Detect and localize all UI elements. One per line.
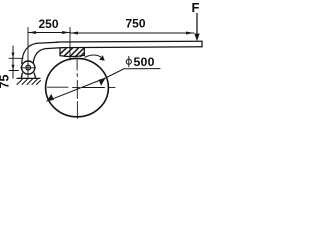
svg-text:250: 250 <box>38 17 58 31</box>
arrow: dim75 upper (down, tip y=58.3) <box>12 53 15 59</box>
brake shoe left edge <box>59 48 61 56</box>
arrow: phi500 upper-right tip on rim <box>99 78 106 86</box>
drum horizontal centerline <box>48 86 116 88</box>
svg-text:750: 750 <box>125 17 145 31</box>
pin vertical centerline / extension line for 250 <box>27 28 29 79</box>
lever bar bottom edge <box>62 46 202 49</box>
svg-text:F: F <box>192 0 200 15</box>
phi500 leader: diagonal through circle + horizontal <box>47 69 160 102</box>
dim 750 line <box>70 32 194 34</box>
dim 75 tick top <box>9 57 23 59</box>
arrow: dim250 right (tip at x=70) <box>62 31 70 34</box>
arrow: dim750 left (tip at x=70) <box>70 32 78 35</box>
pin support block <box>21 73 36 78</box>
arrow: force F (down, tip on bar) <box>194 34 199 42</box>
lever bar top edge <box>57 40 202 43</box>
dim 75 line <box>12 46 14 78</box>
arrow: phi500 lower-left tip on rim <box>47 94 54 101</box>
brake shoe right edge <box>83 48 85 56</box>
ground hatching <box>17 79 41 85</box>
ground line <box>17 77 40 79</box>
arrow: dim75 lower (down, tip y=70.5) <box>12 65 15 71</box>
dim 75 tick bottom <box>9 70 19 72</box>
label phi500 : phi glyph drawn <box>126 56 131 67</box>
dim 250 line <box>28 32 70 34</box>
pin outer circle <box>22 61 35 74</box>
lever bar right end cap <box>201 41 203 47</box>
svg-text:75: 75 <box>0 75 12 89</box>
drum vertical centerline <box>76 59 78 119</box>
brake shoe hatching <box>60 48 84 57</box>
rotation direction arrow shaft <box>85 55 101 57</box>
brake shoe bottom edge <box>60 55 84 56</box>
drum circle phi500 <box>46 58 109 116</box>
lever curved arm inner edge <box>33 48 63 64</box>
shared extension line x=70 <box>69 28 71 61</box>
pin horizontal centerline <box>21 67 36 69</box>
arrow: dim250 left (tip at x=28) <box>28 31 36 34</box>
force F line <box>196 14 198 34</box>
arrow: rotation direction arrowhead <box>99 55 105 61</box>
svg-text:500: 500 <box>134 55 155 69</box>
lever curved arm outer edge <box>22 42 58 63</box>
pin inner circle <box>26 65 31 70</box>
arrow: dim750 right (tip at x=194) <box>186 32 194 35</box>
